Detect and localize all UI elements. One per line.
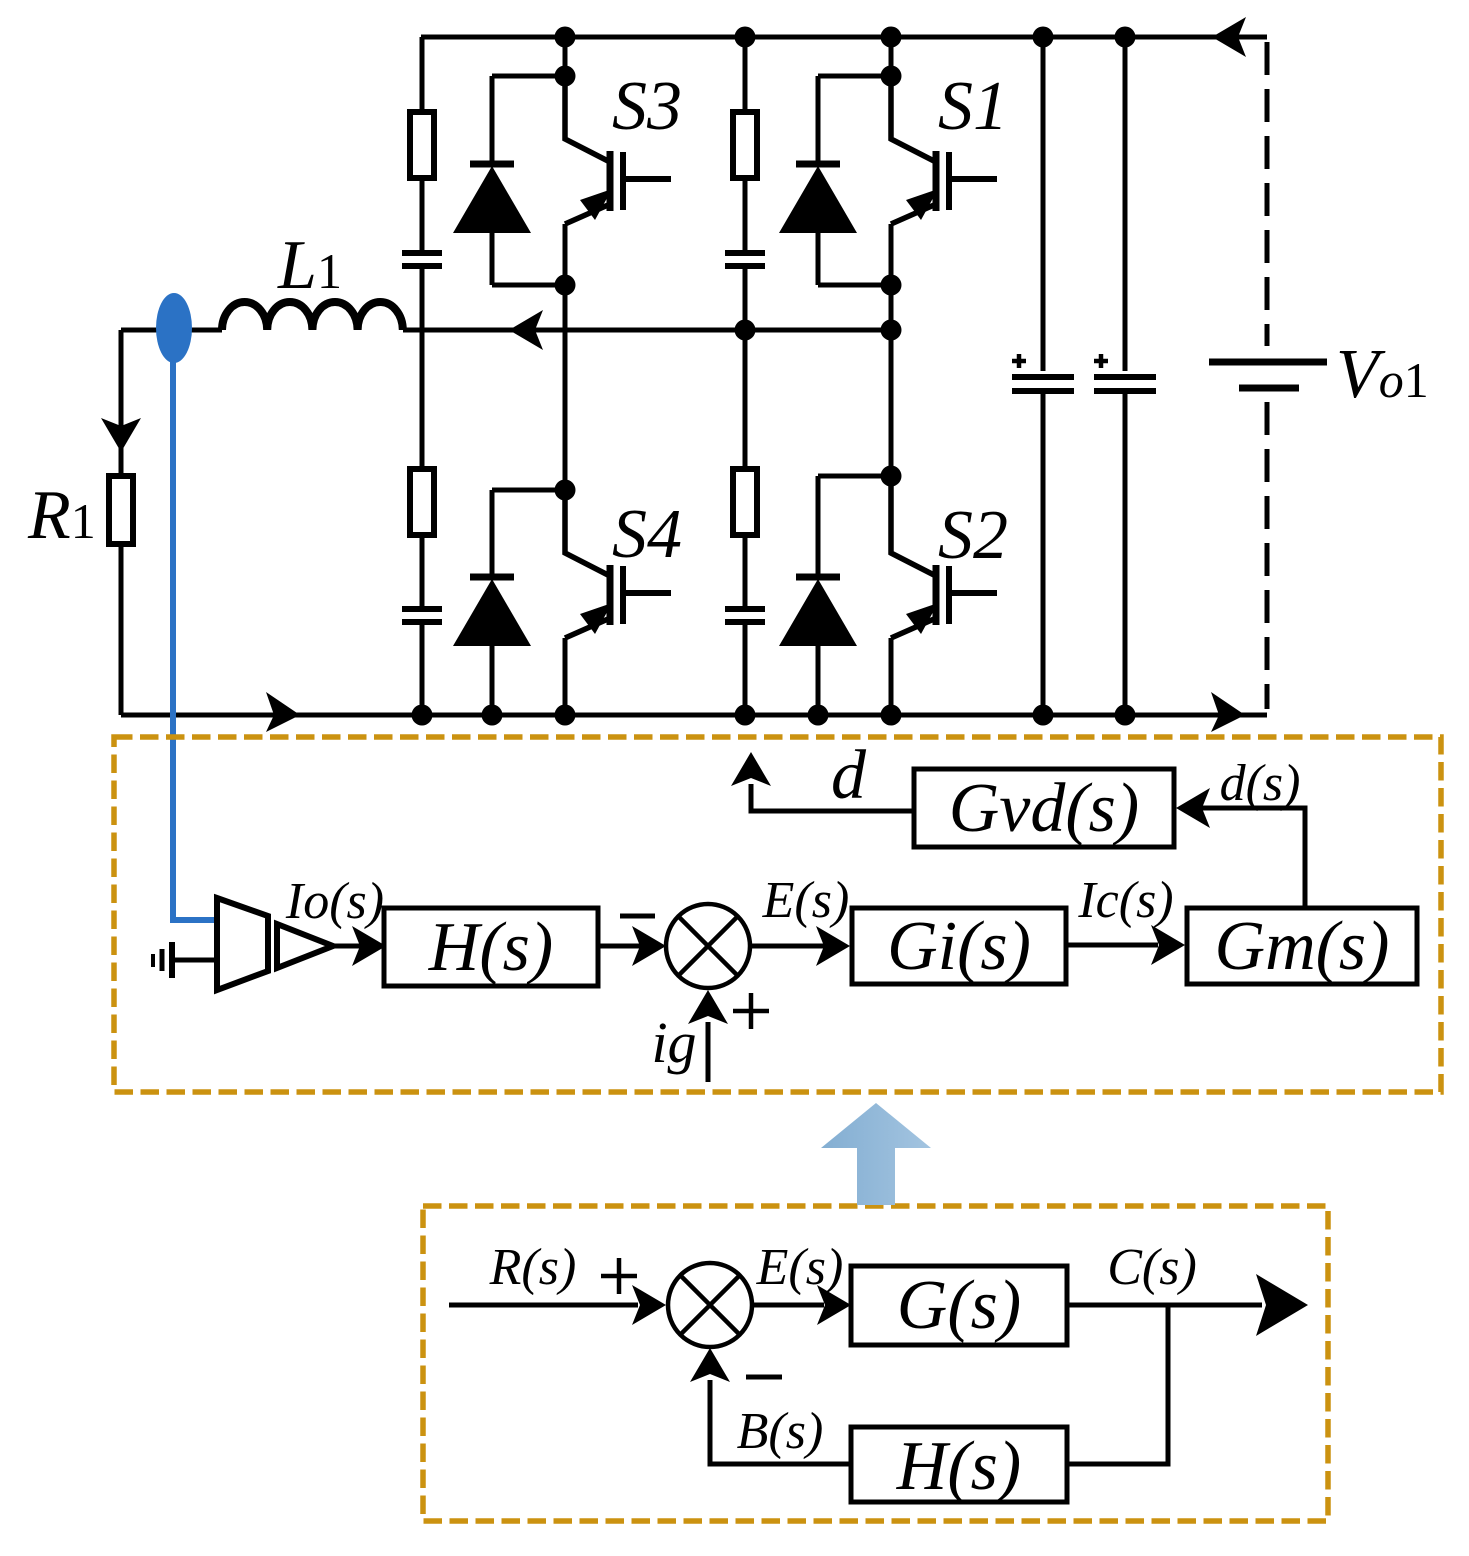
diode D4 — [470, 490, 514, 715]
inductor L1 — [222, 302, 403, 330]
svg-text:S1: S1 — [938, 68, 1008, 145]
svg-text:d: d — [831, 737, 867, 814]
svg-text:R(s): R(s) — [489, 1239, 577, 1296]
sensor amplifier triangle — [277, 924, 333, 968]
transistor S3 — [565, 76, 671, 224]
wire bottom rail — [121, 713, 1267, 718]
capacitor leg1 lower capacitor — [402, 609, 442, 622]
wire S3 emitter tie — [492, 224, 565, 330]
block Gi(s) — [852, 908, 1066, 984]
svg-text:Io(s): Io(s) — [285, 873, 384, 930]
wire C2 column — [1123, 37, 1128, 715]
svg-text:ig: ig — [651, 1010, 696, 1075]
svg-text:d(s): d(s) — [1220, 755, 1301, 812]
capacitor C2 (electrolytic) — [1094, 377, 1156, 391]
transistor S1 — [891, 76, 997, 224]
capacitor C1 (electrolytic) — [1012, 377, 1074, 391]
label C2 plus — [1094, 354, 1108, 368]
wire S2 emitter — [889, 638, 894, 715]
svg-text:S4: S4 — [612, 496, 682, 573]
block H(s) upper — [384, 908, 598, 986]
wire S2 collector tie — [818, 330, 891, 476]
wire ig input arrow — [706, 1022, 711, 1082]
current sensor trapezoid — [217, 898, 268, 990]
label plus at summer — [733, 993, 769, 1029]
resistor leg2 upper resistor — [733, 112, 757, 178]
svg-text:E(s): E(s) — [756, 1239, 844, 1296]
wire S3 collector tie — [492, 37, 565, 76]
wire S4 emitter — [563, 638, 568, 715]
wire leg2 snubber column — [743, 37, 748, 715]
svg-text:H(s): H(s) — [428, 909, 553, 986]
wire d output arrow — [751, 784, 914, 811]
capacitor leg1 upper capacitor — [402, 253, 442, 266]
label plus at summer 2 — [601, 1258, 637, 1294]
battery Vo1 — [1209, 362, 1327, 388]
svg-text:H(s): H(s) — [896, 1428, 1021, 1505]
node S1 collector — [881, 66, 902, 87]
svg-text:S2: S2 — [938, 497, 1008, 574]
transistor S2 — [891, 476, 997, 638]
wire C(s) output — [1067, 1303, 1262, 1308]
node S3 emitter — [555, 275, 576, 296]
capacitor leg2 upper capacitor — [725, 253, 765, 266]
block Gvd(s) — [914, 769, 1174, 847]
node S4 collector — [555, 480, 576, 501]
wire C1 column — [1041, 37, 1046, 715]
node output current sense (blue ellipse) — [173, 360, 217, 920]
resistor leg1 upper resistor — [410, 112, 434, 178]
wire Gi to Gm — [1066, 943, 1158, 948]
wire d(s) into Gvd — [1200, 808, 1305, 908]
label minus at summer — [620, 914, 655, 919]
label minus at summer 2 — [746, 1375, 782, 1380]
arrow into summer — [632, 926, 666, 966]
control loop dashed box 1 — [114, 737, 1441, 1092]
arrow on top rail (leftward) — [1212, 17, 1246, 57]
label C1 plus — [1012, 354, 1026, 368]
wire summer to G(s) — [752, 1303, 824, 1308]
svg-text:Ic(s): Ic(s) — [1077, 872, 1173, 929]
svg-text:G(s): G(s) — [897, 1267, 1021, 1344]
block H(s) lower — [851, 1427, 1067, 1502]
arrow on bottom rail right (rightward) — [1211, 692, 1245, 732]
arrow down into R1 — [101, 418, 141, 452]
wire summer to Gi — [750, 944, 824, 949]
wire S1 emitter tie — [818, 224, 891, 330]
node S3 collector — [555, 66, 576, 87]
ground — [153, 942, 217, 978]
svg-text:C(s): C(s) — [1107, 1239, 1197, 1296]
svg-text:S3: S3 — [612, 68, 682, 145]
resistor leg1 lower resistor — [410, 469, 434, 535]
svg-text:B(s): B(s) — [737, 1403, 824, 1460]
arrow on mid rail (leftward) — [509, 310, 543, 350]
wire feedback branch — [710, 1305, 1168, 1464]
wire S4 collector tie — [492, 330, 565, 490]
wire S1 collector tie — [818, 37, 891, 76]
resistor leg2 lower resistor — [733, 469, 757, 535]
node bottom rail junctions — [412, 705, 1136, 726]
wire sensor to H(s) — [333, 944, 640, 949]
diode D1 — [796, 76, 840, 285]
capacitor leg2 lower capacitor — [725, 609, 765, 622]
node S2 collector — [881, 466, 902, 487]
wire top rail — [421, 35, 1267, 40]
diode D3 — [470, 76, 514, 285]
wire R(s) input — [449, 1303, 638, 1308]
summing junction (lower) — [668, 1263, 752, 1347]
wire left loop (R1 branch) — [119, 330, 124, 715]
arrow on bottom rail left (rightward) — [266, 692, 300, 732]
svg-text:Gi(s): Gi(s) — [887, 908, 1031, 985]
node S1 emitter — [881, 275, 902, 296]
node mid rail junctions — [735, 320, 902, 341]
svg-text:Gm(s): Gm(s) — [1215, 908, 1390, 985]
transistor S4 — [565, 490, 671, 638]
wire mid rail — [121, 328, 891, 333]
svg-text:E(s): E(s) — [762, 872, 850, 929]
wire leg1 snubber column — [420, 37, 425, 715]
node top rail junctions — [555, 27, 1136, 48]
resistor R1 — [109, 476, 133, 544]
summing junction (upper) — [666, 904, 750, 988]
wire dashed battery column — [1265, 42, 1270, 709]
classic feedback dashed box 2 — [423, 1206, 1328, 1521]
block G(s) — [851, 1266, 1067, 1345]
diode D2 — [796, 476, 840, 715]
svg-text:Gvd(s): Gvd(s) — [949, 770, 1139, 847]
block Gm(s) — [1187, 908, 1417, 984]
